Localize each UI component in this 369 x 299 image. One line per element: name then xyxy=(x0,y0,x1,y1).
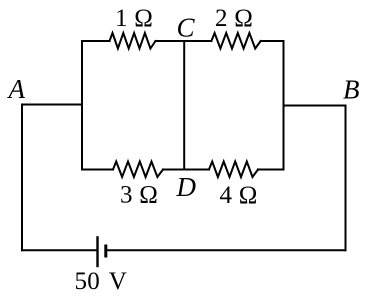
svg-text:A: A xyxy=(7,74,26,104)
svg-text:4 Ω: 4 Ω xyxy=(220,182,258,209)
wire middle vertical C to D xyxy=(183,41,185,170)
wire bottom left segment xyxy=(22,249,96,251)
resistor R3 3 ohm (bottom left) with leads xyxy=(82,162,184,178)
battery 50 V long plate xyxy=(96,237,98,266)
wire right outer vertical xyxy=(345,106,347,251)
svg-text:1 Ω: 1 Ω xyxy=(115,5,153,32)
wire left outer vertical xyxy=(21,105,23,251)
battery 50 V short plate xyxy=(104,246,107,256)
wire inner right vertical xyxy=(283,41,285,170)
resistor R2 2 ohm (top right) with leads xyxy=(184,33,283,49)
svg-text:D: D xyxy=(176,172,197,202)
wire B lead horizontal xyxy=(284,105,346,107)
svg-text:3 Ω: 3 Ω xyxy=(120,182,158,209)
resistor R1 1 ohm (top left) with leads xyxy=(82,33,184,49)
wire inner left vertical xyxy=(81,41,83,170)
wire bottom right segment xyxy=(107,249,346,251)
wire A lead horizontal xyxy=(22,104,82,106)
svg-text:C: C xyxy=(177,13,196,43)
svg-text:B: B xyxy=(343,75,360,105)
resistor R4 4 ohm (bottom right) with leads xyxy=(184,162,283,178)
svg-text:2 Ω: 2 Ω xyxy=(215,5,253,32)
svg-text:50 V: 50 V xyxy=(75,268,128,295)
